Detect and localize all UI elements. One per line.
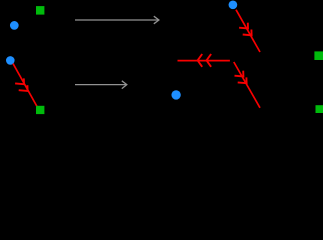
bond L1 (red line from A2 to B2) [13,64,37,107]
bond L1 chevron 1 [15,78,24,84]
bond L3 horizontal segment (red, right panel) [178,60,230,62]
particle A2 (blue circle, bottom-left reactant) [6,56,15,65]
particle A4 (blue circle, bottom-right product) [171,90,180,99]
bond L4 diagonal segment (red, right panel) [234,62,260,108]
bond L3 chevron 2 (left-pointing) [207,54,212,67]
particle B2 (green square, bottom-left reactant) [36,106,44,114]
particle B3 (green square, right edge upper) [314,51,323,60]
reaction arrow R2 (bottom, gray) [75,81,127,89]
bond L4 chevron 1 [235,71,244,77]
bond L2 (red line from A3, top-right) [236,10,260,52]
bond L3 chevron 1 (left-pointing) [198,54,203,67]
reaction arrow R1 (top, gray) [75,16,159,24]
particle B4 (green square, right edge lower) [316,105,323,113]
particle A3 (blue circle, top-right product) [229,0,238,9]
bond L1 chevron 2 [19,85,28,91]
particle B1 (green square, top-left reactant) [36,6,44,15]
bond L4 chevron 2 [238,77,247,83]
particle A1 (blue circle, top-left reactant) [10,21,19,30]
bond L2 chevron 2 [243,30,252,36]
bond L2 chevron 1 [239,23,248,29]
